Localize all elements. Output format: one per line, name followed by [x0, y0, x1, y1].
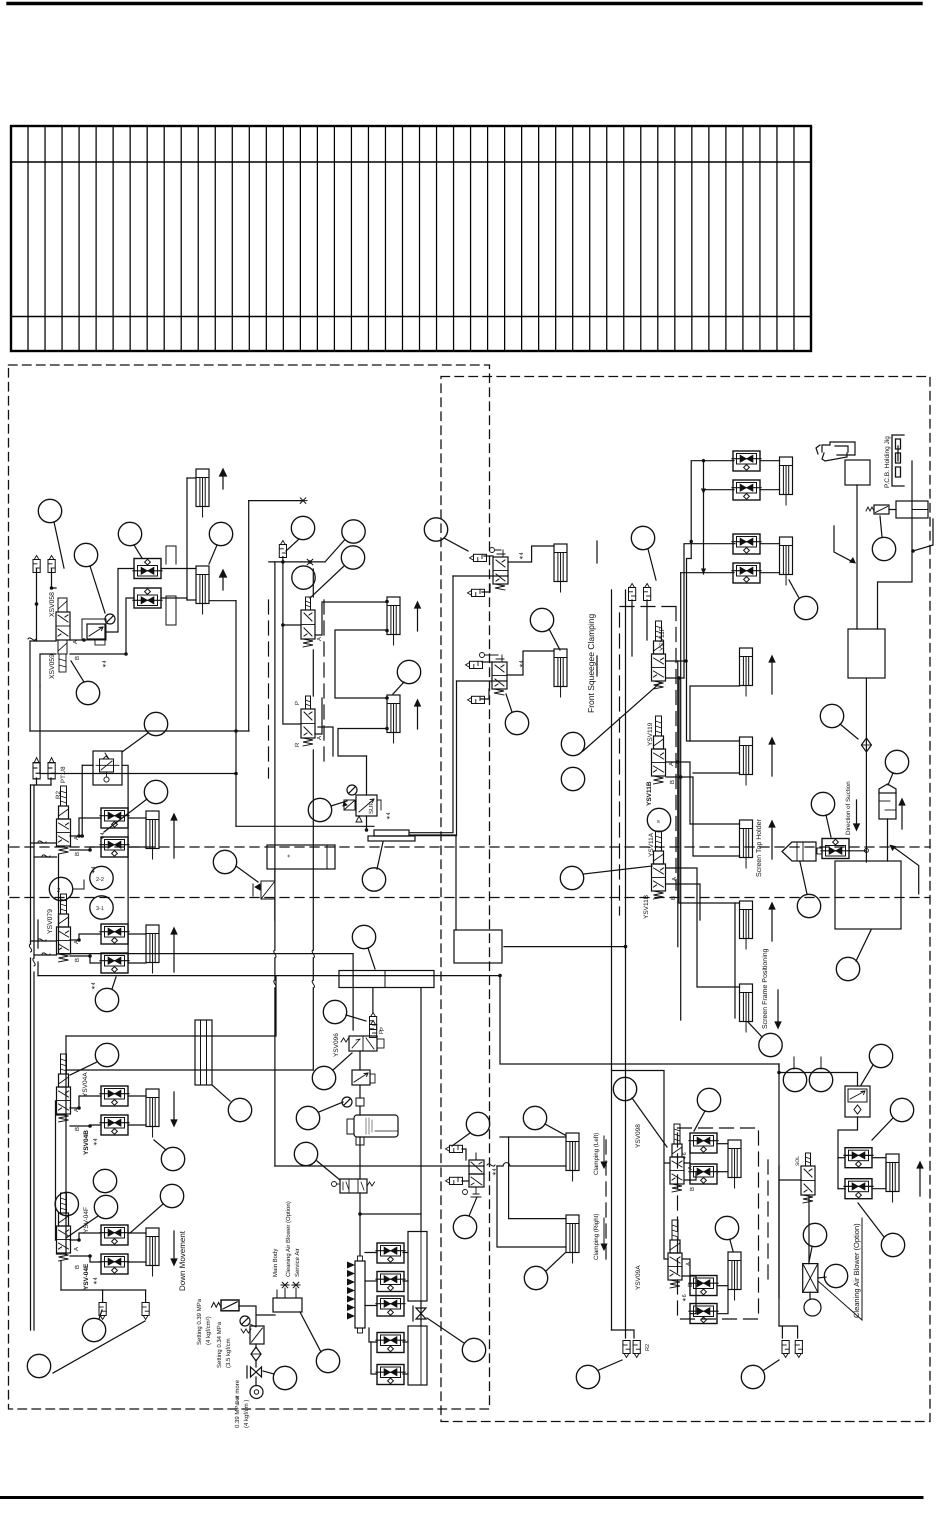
arrow up cyl2 [220, 570, 227, 590]
node bus wires top-left [30, 478, 301, 826]
valve YSV079 [57, 894, 71, 962]
inner dashed box edge left [268, 600, 270, 778]
leader 1 [54, 522, 64, 568]
cylinder STH3 [740, 820, 753, 868]
manifold block SUP lower [368, 836, 415, 841]
wire x58 drop [58, 854, 60, 954]
small cylinder box right [896, 501, 928, 518]
vacuum pump box [835, 861, 901, 929]
wire cyl1 bottom to cyl2 top [335, 630, 387, 698]
fc FC9 [732, 534, 761, 554]
rect pass-through middle [267, 845, 335, 869]
callout circle C46 [524, 1266, 547, 1289]
svg-text:Front Squeegee Clamping: Front Squeegee Clamping [586, 613, 596, 713]
leader C26 [880, 516, 882, 537]
wire manifold right to rect [409, 835, 456, 930]
mufflers bottom left pair [623, 1341, 630, 1358]
callout circle 8 [342, 520, 365, 543]
callout circle C39 [27, 1354, 50, 1377]
wires 09a [682, 1259, 728, 1314]
SUP regulator arrow [359, 799, 374, 812]
svg-text:+: + [287, 854, 291, 860]
cylinder PCB2 [780, 537, 793, 585]
svg-text:A: A [72, 640, 79, 644]
flow control FCR1 [689, 1133, 718, 1153]
leader C57 [317, 1161, 340, 1180]
leader tick circle s2 [820, 1057, 822, 1069]
flow control FCR4 [689, 1304, 718, 1324]
horizontal dashed fold line upper [10, 846, 930, 848]
svg-text:SOL: SOL [795, 1156, 801, 1166]
flow control FC11 [100, 1086, 129, 1106]
leader 12 [377, 842, 383, 869]
wire bar right branch down [360, 988, 421, 1214]
svg-text:YSV079: YSV079 [47, 909, 54, 934]
svg-text:(4 kgf/cm ): (4 kgf/cm ) [243, 1400, 250, 1428]
leader C56 [319, 1102, 343, 1112]
air filter unit box [347, 1115, 398, 1137]
callout circle C32 [95, 1043, 118, 1066]
svg-text:B: B [74, 852, 81, 856]
svg-text:YSV04A: YSV04A [82, 1072, 89, 1097]
circle node 2 [49, 877, 72, 900]
wire x38 drop [37, 920, 39, 976]
relief regulator blower [845, 1086, 870, 1117]
callout circle 5 [76, 681, 99, 704]
cylinder R2 [728, 1252, 741, 1300]
left section dashed box [9, 365, 490, 1409]
callout circle C56 [296, 1106, 319, 1129]
callout circle C10b [424, 518, 447, 541]
callout circle C11 [530, 608, 553, 631]
junction dots fc risers [690, 459, 706, 543]
svg-text:XSV058: XSV058 [49, 592, 56, 617]
svg-text:Clamping (Left): Clamping (Left) [593, 1133, 600, 1175]
suction inlet filter pentagon [782, 842, 816, 861]
callout circle C28 [797, 894, 820, 917]
suction main line [856, 485, 858, 629]
callout circle C25 [794, 596, 817, 619]
check valve W right [866, 505, 889, 514]
svg-text:∗4: ∗4 [93, 1138, 99, 1146]
wire cyl1 top feed [187, 477, 196, 479]
valve YSV119 [652, 716, 666, 784]
leader C50 [809, 1247, 812, 1262]
blower X box [803, 1264, 818, 1293]
nozzle head icon [816, 442, 855, 461]
callout circle C22 [561, 767, 584, 790]
arrow down cyl6 [171, 1231, 177, 1265]
svg-text:∗6: ∗6 [682, 1294, 688, 1302]
wire fc2 to cyl2 [161, 598, 196, 600]
cylinder STH1 [740, 648, 753, 696]
bowtie stem bar [412, 1306, 414, 1321]
svg-text:A: A [671, 877, 678, 881]
wire check to drop [239, 1306, 275, 1386]
callout circle 11 [308, 798, 331, 821]
horizontal dashed fold line lower [10, 897, 930, 899]
regulator R1 bleed box [95, 640, 105, 645]
diagonal leader from circle C8 to wire [325, 540, 345, 562]
flow control FCB1 [844, 1148, 873, 1168]
svg-text:s: s [657, 819, 660, 825]
callout circle 9 [341, 546, 364, 569]
wire trap to suction line [849, 850, 866, 852]
flow control FC3 [100, 808, 129, 828]
svg-text:B: B [74, 1127, 81, 1131]
cylinder blower [886, 1154, 899, 1202]
SUP tail tick [377, 800, 381, 810]
flow control FC12 [100, 1115, 129, 1135]
leader C54 [599, 1360, 622, 1370]
flow control FCB2 [844, 1179, 873, 1199]
wire valve1 P riser [283, 624, 301, 626]
clamp valve body [463, 1153, 485, 1197]
leader C30 [856, 930, 871, 961]
junction dots ysv11 [676, 659, 688, 779]
wave x275 at y953 [274, 950, 276, 958]
collector rect lower [408, 1326, 427, 1385]
bus y1036 [66, 976, 276, 1036]
leader C55 [333, 1053, 352, 1070]
svg-text:B: B [669, 780, 676, 784]
junction dot mid [358, 1212, 362, 1216]
svg-text:YSV11B: YSV11B [646, 781, 653, 806]
circle node 3-1 [90, 896, 113, 919]
wire squeegee supply drop A [410, 576, 453, 833]
supply manifold block [273, 1298, 302, 1312]
==TABLE== [11, 126, 811, 351]
suction trap flow control [821, 839, 850, 859]
callout circle C42 [462, 1338, 485, 1361]
leader C27 [888, 773, 893, 785]
regulator R1 [87, 624, 105, 639]
svg-text:B: B [74, 656, 81, 660]
cylinder CLAMP-R [566, 1215, 579, 1263]
regulator W box service [241, 1326, 264, 1344]
rail x66 [65, 1036, 67, 1254]
leader C25 [789, 580, 799, 598]
svg-text:PT1/8: PT1/8 [60, 766, 67, 783]
junction dots v2 [77, 938, 92, 958]
XD pilot valve middle [253, 881, 275, 899]
leader to C39 from muffler7 [53, 1321, 145, 1373]
gauge service [240, 1316, 250, 1326]
callout circle C57 [294, 1142, 317, 1165]
leader C17 [122, 733, 148, 752]
wire bus y731 [30, 730, 249, 732]
svg-text:YSV098: YSV098 [635, 1124, 642, 1148]
svg-text:R2: R2 [645, 1344, 651, 1351]
arrow up sth4 [769, 903, 775, 941]
direction arrow kink 2 [892, 846, 919, 894]
muffler FSQ2 top [466, 661, 483, 668]
svg-text:Setting 0.39 MPa: Setting 0.39 MPa [196, 1298, 203, 1345]
junction dots [35, 586, 128, 656]
jig connect wire [878, 446, 913, 629]
arrow up sth1 [769, 656, 775, 694]
svg-text:Cleaning Air Blower (Option): Cleaning Air Blower (Option) [852, 1223, 861, 1318]
valve FSQ2 3/2 [480, 653, 508, 696]
wires clamp valve [462, 1137, 566, 1247]
svg-text:∗4: ∗4 [91, 982, 97, 990]
wire bus y773 [40, 773, 236, 775]
callout circle C27 [885, 750, 908, 773]
svg-text:∗4: ∗4 [519, 552, 525, 560]
shutoff valve mid [332, 1179, 375, 1193]
exhaust filter right [879, 784, 896, 819]
wave on clamp wire [487, 1164, 495, 1166]
wire valve2 A [315, 698, 322, 734]
wire x236 drop to y826 [235, 601, 237, 827]
callout circle 7 [292, 566, 315, 589]
top rule line [8, 2, 921, 5]
wire y562 [269, 561, 325, 563]
collector rect upper [408, 1232, 427, 1302]
svg-text:YSV096: YSV096 [333, 1033, 340, 1057]
wire bar to muffler P [372, 988, 374, 1012]
check valve W main [211, 1300, 239, 1311]
muffler M6 (tip down) [99, 1303, 106, 1320]
muffler M7 (tip down) [142, 1303, 149, 1320]
wire y953 bus [59, 954, 354, 1030]
svg-text:Direction of Suction: Direction of Suction [845, 781, 852, 835]
leader C24 [748, 1022, 762, 1037]
svg-text:∗4: ∗4 [102, 660, 108, 668]
bus y1070 [66, 1069, 313, 1071]
wave on valve1 left wire2 [42, 855, 50, 857]
arrow down direction [854, 800, 860, 830]
svg-text:R: R [294, 742, 301, 747]
callout circle C59 [715, 1216, 738, 1239]
valve YSV09A [668, 1220, 682, 1288]
muffler BR2 [795, 1341, 802, 1358]
wire SUP to manifold [366, 816, 368, 830]
cylinder CYL4 [146, 925, 159, 973]
svg-text:B: B [689, 1187, 696, 1191]
callout circle 4 [209, 522, 232, 545]
nozzle body box [845, 460, 870, 485]
callout circle C47 [613, 1077, 636, 1100]
callout circle CS2 [809, 1068, 832, 1091]
valve stem bar [246, 1366, 248, 1378]
wire SUP drop [366, 756, 368, 795]
valve FSQ1 3/2 [490, 548, 509, 591]
wire valve left B to bus2 [40, 654, 56, 686]
svg-text:∗4: ∗4 [386, 812, 392, 820]
callout circle 3 [118, 522, 141, 545]
callout circle C21 [561, 732, 584, 755]
callout circle C35 [93, 1169, 116, 1192]
callout circle C36 [94, 1195, 117, 1218]
svg-text:YSV09A: YSV09A [635, 1265, 642, 1290]
flow control FC14 [100, 1254, 129, 1274]
callout circle 10 [397, 660, 420, 683]
air unit square2 [356, 1137, 364, 1145]
leader 7 to valve1 stem [310, 566, 344, 598]
manifold with triangles [347, 1256, 365, 1333]
svg-text:YSV04B: YSV04B [83, 1130, 90, 1155]
cylinder STH2 [740, 737, 753, 785]
valve SQ1 3/2 [301, 597, 315, 647]
valve YSV07-1 [57, 786, 71, 854]
leader C58 [694, 1111, 705, 1131]
leader C18 [104, 799, 147, 832]
svg-text:A: A [316, 736, 323, 740]
callout circle C45 [523, 1106, 546, 1129]
flow control FC5 [100, 924, 129, 944]
svg-text:A: A [685, 1262, 692, 1266]
wire y975 corner down to blower feed [500, 976, 858, 1086]
flow arrowheads on riser [701, 489, 706, 575]
callout circle C61 [820, 704, 843, 727]
callout circle 2 [74, 543, 97, 566]
wire top x-capped [249, 500, 301, 502]
gauge mid [342, 1097, 352, 1107]
svg-text:YSV11F: YSV11F [659, 627, 666, 651]
star port 1 [281, 1282, 289, 1288]
muffler M1 [33, 556, 40, 573]
muffler FSQ1 top (horizontal) [470, 554, 487, 561]
leader 4 [209, 545, 217, 564]
leader 13 [236, 866, 258, 882]
flow control FC13 [100, 1225, 129, 1245]
muffler FSQ1 bottom [468, 589, 485, 596]
regulator mid [352, 1070, 375, 1085]
muffler CL1 [446, 1145, 463, 1152]
muffler P2 [370, 1021, 377, 1038]
leader C46 [546, 1253, 565, 1271]
long manifold bar middle [339, 971, 434, 988]
wire x249 riser [248, 501, 250, 731]
callout circle C43 [466, 1112, 489, 1135]
regulator R1 outer [82, 619, 106, 640]
leader 14 [368, 948, 375, 969]
muffler P middle [370, 1013, 377, 1030]
wire x275 bus [274, 562, 276, 1166]
junction dot blower feed [777, 1071, 781, 1075]
shutoff bowtie on drop [416, 1308, 426, 1319]
arrow down clampR [601, 1218, 607, 1250]
junction dots 04e [77, 1238, 92, 1258]
wire valve left to left bus [30, 641, 56, 731]
svg-text:A: A [316, 637, 323, 641]
leader C36 [66, 1216, 98, 1238]
svg-text:YSV-04E: YSV-04E [83, 1263, 90, 1290]
fc FC10 [732, 563, 761, 583]
inner dash blower [767, 1160, 769, 1285]
svg-text:B: B [74, 958, 81, 962]
callout circle C34 [55, 1192, 78, 1215]
wire regulator to fc riser [106, 569, 134, 633]
manifold block SUP [374, 830, 409, 836]
arrow down clampL [601, 1136, 607, 1168]
flow control FC1 (diamond up) [133, 559, 162, 579]
svg-text:∗4: ∗4 [492, 1168, 498, 1176]
leader C12b [506, 694, 512, 712]
valve SOL blower [801, 1153, 815, 1203]
leader C40 [263, 1371, 274, 1374]
wires valve1 to fc [31, 818, 147, 857]
svg-text:B: B [670, 896, 677, 900]
arrow up cyl3 [171, 814, 177, 858]
junction dots 04a [77, 1106, 92, 1128]
callout circle C38 [82, 1318, 105, 1341]
PCB jig comb [892, 435, 904, 486]
clamp supply wire y1166 [275, 1165, 566, 1167]
leader 11 [331, 801, 347, 806]
wire muffler1 down [36, 569, 38, 641]
wires 04e [56, 1233, 147, 1302]
arrow down cyl5 [171, 1092, 177, 1126]
regulator R1 gauge [105, 614, 115, 624]
wave on valve1 left wire [38, 841, 46, 843]
muffler M4 [33, 758, 40, 779]
svg-text:∗4: ∗4 [519, 660, 525, 668]
arrow up cyl4 [171, 928, 177, 972]
wave break on valve left wire [28, 638, 36, 640]
leader C33 [154, 1140, 166, 1150]
valve YSV04E [57, 1193, 71, 1261]
cylinder SQCYL1 [387, 597, 400, 645]
wave on valve2 left wire [38, 939, 46, 941]
fc stack wires [365, 1214, 421, 1374]
muffler FSQ2 bottom [468, 696, 485, 703]
callout circle C55 [312, 1066, 335, 1089]
wire muffler2 down to valve P [52, 569, 57, 588]
leader C45 [545, 1124, 565, 1135]
junction dots v1 [77, 834, 92, 852]
muffler M5 [48, 758, 55, 779]
flow control FCR2 [689, 1164, 718, 1184]
double gauge service [250, 1386, 263, 1399]
shutoff valve service [251, 1367, 262, 1377]
callout circle CS1 [783, 1068, 806, 1091]
jig right diagonal [913, 519, 933, 551]
callout circle C44 [453, 1215, 476, 1238]
wire x313 bus [312, 569, 314, 1070]
rect mid-right junction [454, 930, 502, 963]
leader C20 [648, 549, 656, 580]
cylinder CYL5 [146, 1089, 159, 1137]
arrow up sth2 [769, 738, 775, 776]
svg-text:2-2: 2-2 [96, 877, 104, 883]
cylinder R1 [728, 1140, 741, 1188]
leader 10 [393, 682, 404, 694]
flow control FCM5 [376, 1365, 405, 1385]
arrow up exhaust [899, 799, 905, 829]
fc stack right FC7 [732, 451, 761, 471]
cylinder PCB1 [780, 457, 793, 505]
valve YSV098 [670, 1124, 684, 1192]
flow control FC4 [100, 837, 129, 857]
valve YSV04A [57, 1054, 71, 1122]
inner long-dash box YSV11 [620, 607, 677, 916]
arrow down sfp [775, 990, 781, 1028]
callout circle C58 [697, 1088, 720, 1111]
callout circle C31 [95, 988, 118, 1011]
callout circle C40 [273, 1366, 296, 1389]
blower label leader [818, 1218, 862, 1320]
leader C59 [730, 1240, 733, 1251]
leader C51 [818, 1277, 826, 1278]
leader C23 [584, 866, 652, 874]
right section dashed box [441, 377, 930, 1422]
valve YSV11A [652, 831, 666, 899]
svg-text:Setting 0.34 MPa: Setting 0.34 MPa [216, 1321, 223, 1368]
svg-text:A: A [73, 1247, 80, 1251]
cylinder SFP [740, 984, 753, 1032]
